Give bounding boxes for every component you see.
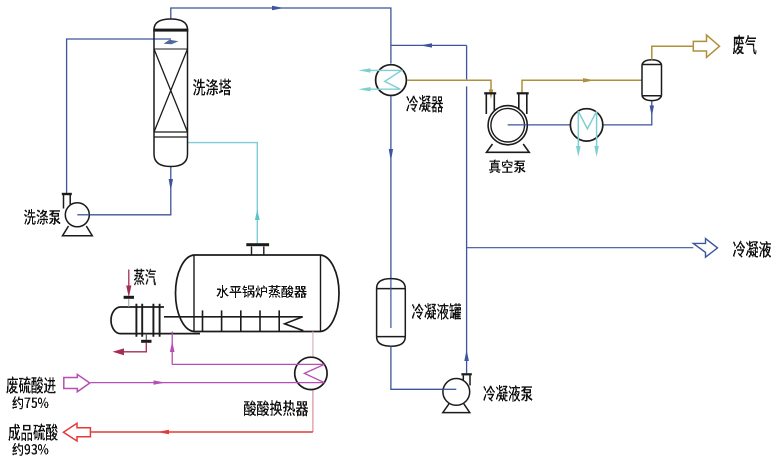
condenser coil (cyan) <box>370 70 402 89</box>
wire: preheated feed riser into evaporator <box>171 332 173 365</box>
product outlet block arrow <box>63 423 90 441</box>
wire: column overhead to condenser <box>171 8 391 64</box>
arrow up on pump discharge <box>464 350 469 362</box>
M-cooler internals (cyan M) <box>578 111 596 149</box>
wire: right header vertical <box>466 45 468 373</box>
label 废硫酸进 <box>7 377 56 395</box>
wire: vacuum pump discharge to knockout drum (olive) <box>522 80 642 93</box>
olive arrow right <box>583 78 595 82</box>
label 洗涤塔 <box>193 79 231 96</box>
M-cooler water arrows down <box>576 146 581 157</box>
suction stub into pump <box>443 388 456 390</box>
label 水平锅炉蒸酸器 <box>217 285 307 298</box>
label 废气 <box>733 35 756 55</box>
label 约93% <box>13 443 49 456</box>
wire: HX to product line (pale red) <box>312 390 314 433</box>
washing pump P1 <box>62 193 93 236</box>
wire: spray feed line into column <box>67 39 171 195</box>
arrow down on condensate leg <box>389 149 393 161</box>
feed arrow right <box>154 380 166 384</box>
label 真空泵 <box>489 160 526 174</box>
wire: drum overhead to waste gas (olive) <box>652 46 694 60</box>
condensate block arrow <box>693 239 717 258</box>
heating element tube <box>164 310 303 331</box>
drain line <box>122 343 146 352</box>
label 冷凝器 <box>407 95 444 113</box>
condenser E1 circle <box>376 65 407 96</box>
wire: condenser to condensate tank <box>390 96 392 279</box>
product acid line (red) <box>91 431 313 433</box>
steam arrow down <box>126 286 131 298</box>
wire: condensate product line <box>467 247 694 249</box>
pump center line stub <box>508 124 528 126</box>
condensate pump P3 <box>443 373 472 412</box>
label 洗涤泵 <box>24 209 61 225</box>
wire: column bottoms to washing pump suction <box>89 167 171 215</box>
spray nozzle <box>164 40 179 44</box>
steam stub to header <box>128 299 130 307</box>
label 蒸汽 <box>134 269 156 286</box>
evaporator vessel <box>175 255 339 332</box>
steam inlet line <box>128 270 130 293</box>
flow arrow up on vapor line <box>255 210 260 221</box>
dip tube inside tank <box>390 279 392 328</box>
product arrow left <box>157 430 169 434</box>
label 冷凝液罐 <box>412 303 461 320</box>
vacuum pump P2 <box>484 92 529 152</box>
olive arrow down into pump port <box>489 90 493 100</box>
wire: cyan vapor line evaporator to column <box>188 143 258 244</box>
wire: condenser vapor to vacuum pump (olive) <box>407 80 491 92</box>
label 成品硫酸 <box>9 424 58 442</box>
wire: seal liquid loop drum to pump (blue) <box>508 101 652 125</box>
header flanges <box>136 304 159 337</box>
label 酸酸换热器 <box>244 400 308 416</box>
knockout drum V2 <box>642 60 662 101</box>
steam valve <box>124 296 134 299</box>
drain valve <box>141 340 151 343</box>
wire: equalization line y=45.4 <box>391 44 467 46</box>
tower top weld band <box>153 29 188 32</box>
evaporator top nozzle <box>252 247 264 256</box>
washing tower T1 <box>154 19 188 167</box>
condensate tank V1 <box>377 279 406 347</box>
HX coil and feed lines (magenta) <box>91 364 325 382</box>
steam header drum <box>111 307 200 334</box>
label 冷凝液 <box>733 241 771 259</box>
washing pump suction stub <box>77 214 89 216</box>
M-cooler E3 circle <box>570 109 602 141</box>
condenser cooling arrows left <box>358 68 370 72</box>
waste acid inlet block arrow <box>64 374 90 391</box>
wire: tank bottoms to condensate pump <box>391 346 456 389</box>
wire: hot product evaporator to HX (pale) <box>312 332 314 358</box>
flow arrow down on column bottoms <box>169 179 173 191</box>
label 约75% <box>13 397 49 410</box>
label 冷凝液泵 <box>484 385 533 402</box>
feed riser arrow up <box>170 341 175 352</box>
acid-acid heat exchanger E2 circle <box>295 357 327 389</box>
flow arrow right on overhead line <box>272 6 284 10</box>
arrow down from drum bottom <box>650 106 654 117</box>
header drain stub <box>145 334 147 340</box>
flow arrow left on equalization line <box>420 43 432 47</box>
drain arrow left <box>113 348 125 355</box>
waste gas block arrow <box>693 35 719 57</box>
